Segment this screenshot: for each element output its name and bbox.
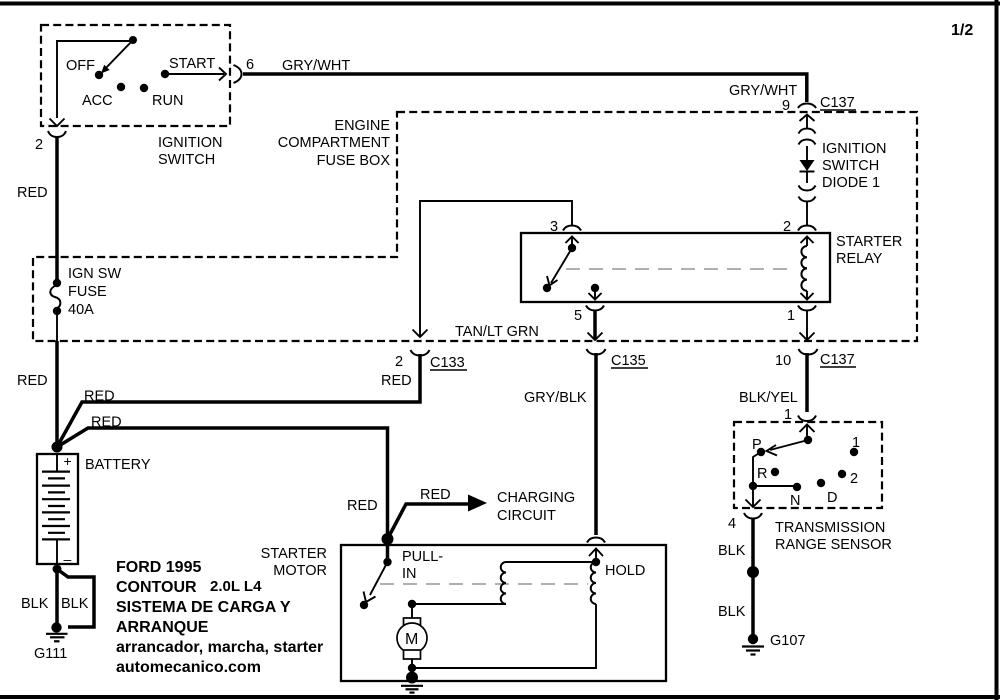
svg-text:SWITCH: SWITCH [822,158,879,174]
C137 label top [820,95,856,111]
OFF contact dot [95,71,103,79]
svg-text:BLK: BLK [61,596,89,612]
starter feed junction dot [382,533,394,545]
wire to starter relay pin 2 [806,201,808,225]
svg-text:1: 1 [784,407,792,423]
splice dot [747,566,759,578]
svg-text:2: 2 [35,137,43,153]
svg-text:automecanico.com: automecanico.com [116,659,261,676]
wire from fuse to battery junction [56,311,58,341]
TRS 2 contact dot [838,470,846,478]
svg-text:C137: C137 [820,352,855,368]
title block [116,559,323,676]
svg-text:TAN/LT GRN: TAN/LT GRN [455,324,539,340]
wire TRS to ground G107 [751,518,755,634]
svg-text:RUN: RUN [152,93,183,109]
svg-text:FUSE: FUSE [68,284,107,300]
pull-in contact dot [360,601,368,609]
hold input arrow into box [589,548,603,562]
svg-text:+: + [64,453,72,469]
relay switch arm from pin 3 [547,236,579,286]
svg-text:RED: RED [84,389,115,405]
starter relay internal gray dashed line [566,268,788,270]
svg-text:RELAY: RELAY [836,251,883,267]
svg-text:RANGE SENSOR: RANGE SENSOR [775,537,892,553]
svg-text:BLK: BLK [718,543,746,559]
TRS rotor dot [804,436,812,444]
svg-text:HOLD: HOLD [605,563,645,579]
starter relay box [521,233,830,302]
svg-text:5: 5 [574,308,582,324]
battery [37,453,78,567]
hold coil [591,558,600,604]
svg-text:10: 10 [775,353,791,369]
svg-text:GRY/BLK: GRY/BLK [524,390,587,406]
svg-text:DIODE 1: DIODE 1 [822,175,880,191]
C133 label [430,355,467,371]
svg-text:CHARGING: CHARGING [497,490,575,506]
wire C137-10 to transmission range sensor [805,353,809,412]
svg-text:CIRCUIT: CIRCUIT [497,508,556,524]
connector socket at TRS pin 1 [798,416,816,422]
ACC contact dot [117,83,125,91]
svg-text:2: 2 [850,471,858,487]
wire from C137-9 into fuse box with up arrow [800,114,815,129]
svg-text:PULL-: PULL- [402,549,443,565]
connector socket below relay pin 1 [798,306,816,311]
starter motor ground [401,672,423,693]
battery negative terminal dot [53,565,62,574]
svg-text:4: 4 [728,516,736,532]
svg-text:STARTER: STARTER [261,546,327,562]
wire from ignition switch to fuse [55,137,59,282]
wire into diode [806,146,808,160]
svg-text:OFF: OFF [66,58,95,74]
ground G111 [46,622,68,641]
connector C137 pin 9 socket [798,104,816,109]
charging circuit feed wire [388,504,469,539]
svg-text:1: 1 [852,435,860,451]
svg-text:M: M [405,631,418,648]
svg-text:RED: RED [91,415,122,431]
wire pull-in coil top to hold coil top [506,561,596,563]
svg-text:BLK: BLK [21,596,49,612]
svg-text:IGNITION: IGNITION [158,135,222,151]
svg-text:RED: RED [17,373,48,389]
svg-text:ACC: ACC [82,93,113,109]
START wire to pin 6 with arrow [165,68,226,81]
svg-text:BLK/YEL: BLK/YEL [739,390,798,406]
battery negative wire to ground G111 [55,569,59,628]
page bottom border [0,695,1000,699]
engine compartment fuse box dashed enclosure [33,112,917,341]
wire to motor case ground [411,668,413,677]
ignition switch common wire [57,41,133,118]
ign sw fuse 40A [50,279,61,315]
svg-text:ARRANQUE: ARRANQUE [116,619,209,636]
svg-text:2.0L L4: 2.0L L4 [210,578,262,595]
TRS 1 contact dot [850,448,858,456]
ignition switch diode 1 [800,160,815,172]
wire from relay pin 1 to C137-10 [800,310,815,340]
relay pin 5 wire with down arrow [589,288,602,300]
connector socket below relay pin 5 [586,306,604,311]
svg-text:GRY/WHT: GRY/WHT [729,83,797,99]
svg-text:STARTER: STARTER [836,234,902,250]
wire below diode [806,171,808,183]
P to N jumper wire [746,452,798,507]
svg-text:C135: C135 [611,353,646,369]
START contact dot [161,70,169,78]
RUN contact dot [140,84,148,92]
charging circuit arrowhead [468,495,487,512]
connector socket at ignition switch pin 6 [234,65,242,83]
svg-text:TRANSMISSION: TRANSMISSION [775,520,885,536]
connector socket at relay pin 3 [563,226,581,231]
wire down to motor [411,604,413,619]
ignition switch pin 2 out: arrow and socket [48,119,66,138]
R contact dot [771,468,779,476]
page right border [995,0,999,700]
svg-text:RED: RED [17,185,48,201]
svg-text:START: START [169,56,215,72]
page top border [0,2,1000,6]
motor feed dot [408,600,416,608]
wire C133 to battery positive [57,354,420,447]
svg-text:ENGINE: ENGINE [334,118,390,134]
svg-text:R: R [757,466,767,482]
svg-text:C133: C133 [430,355,465,371]
svg-text:IGNITION: IGNITION [822,141,886,157]
svg-text:IGN SW: IGN SW [68,266,121,282]
svg-text:BLK: BLK [718,604,746,620]
svg-text:1: 1 [787,308,795,324]
svg-text:1/2: 1/2 [951,22,973,39]
svg-text:arrancador, marcha, starter: arrancador, marcha, starter [116,639,323,656]
svg-text:RED: RED [347,498,378,514]
svg-text:P: P [752,437,762,453]
svg-text:–: – [64,551,72,567]
wire battery positive to starter pull-in feed [57,428,388,539]
P contact dot [757,448,765,456]
wire C135 to hold coil [594,353,598,535]
svg-text:RED: RED [420,487,451,503]
connector C135 socket [587,349,606,355]
starter relay coil [801,236,814,300]
svg-text:2: 2 [395,354,403,370]
svg-text:40A: 40A [68,302,94,318]
svg-text:D: D [827,490,837,506]
connector C133 socket [411,350,430,356]
ignition switch rotor contact dot [129,36,137,44]
TRS wiper arm to P [767,440,809,456]
wire GRY/WHT from ignition switch to C137 [243,74,807,102]
C135 label [611,353,648,369]
svg-text:SWITCH: SWITCH [158,152,215,168]
svg-text:SISTEMA DE CARGA Y: SISTEMA DE CARGA Y [116,599,291,616]
motor ground junction dot [408,664,416,672]
connector socket at relay pin 2 [798,226,816,231]
svg-text:CONTOUR: CONTOUR [116,579,197,596]
ground G107 [742,634,764,655]
svg-text:G107: G107 [770,633,805,649]
motor M [397,618,427,659]
wire motor to ground bus [411,659,413,668]
svg-text:IN: IN [402,566,417,582]
connector socket at starter motor hold input [587,538,605,543]
svg-text:N: N [790,493,800,509]
pull-in switch wire [364,539,392,602]
wire pull-in coil bottom to motor [412,603,506,605]
relay output contact dot pin 5 [591,284,599,292]
starter motor box [341,545,666,681]
ignition switch wiper arrow to OFF [101,40,133,74]
connector socket at TRS pin 4 [744,513,762,519]
starter motor internal gray dashed line [380,583,588,585]
wire from relay pin 5 to C135 [588,310,603,340]
svg-text:BATTERY: BATTERY [85,457,151,473]
battery positive junction dot [52,442,63,453]
connector C137 pin 10 socket [799,349,818,355]
D contact dot [817,479,825,487]
svg-text:FORD 1995: FORD 1995 [116,559,201,576]
svg-text:3: 3 [550,219,558,235]
inline connector below diode (two cup arcs) [799,186,816,191]
wire from relay pin 3 to C133 [413,201,573,337]
ground bus wire from hold coil [412,604,596,668]
N contact dot [793,483,801,491]
svg-text:6: 6 [246,57,254,73]
svg-text:G111: G111 [34,646,67,662]
inline connector above diode (two arcs) [799,129,816,134]
svg-text:MOTOR: MOTOR [273,563,327,579]
svg-text:RED: RED [381,373,412,389]
svg-text:COMPARTMENT: COMPARTMENT [278,135,390,151]
svg-text:FUSE BOX: FUSE BOX [317,153,391,169]
pull-in coil [501,562,506,604]
svg-text:GRY/WHT: GRY/WHT [282,58,350,74]
second ground strap wire [57,569,94,627]
TRS input arrow [800,424,815,440]
relay switch fixed contact dot [543,284,551,292]
C137 label bottom [820,352,856,368]
svg-text:C137: C137 [820,95,855,111]
transmission range sensor dashed enclosure [734,422,882,508]
ignition switch dashed enclosure [41,25,230,126]
